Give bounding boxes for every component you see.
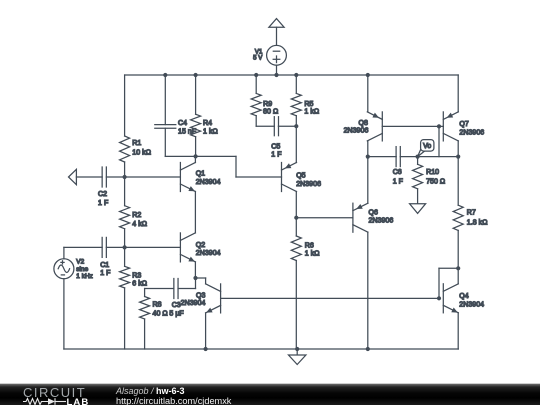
node Q7 base tie [437,124,441,128]
transistor Q2 [179,233,181,262]
svg-text:Q3: Q3 [196,293,205,300]
svg-text:Vo: Vo [423,143,431,150]
power arrow V1 [269,19,284,28]
wire rail to Q7 emitter [457,75,459,112]
resistor R10 [413,164,423,189]
wire Q2 emitter down [194,262,196,278]
wire C6 to Vo node [400,156,417,158]
svg-text:R5: R5 [304,101,313,108]
node Q7 collector [456,155,460,159]
transistor Q1 [179,163,181,192]
svg-text:Q7: Q7 [459,121,468,128]
svg-text:Q2: Q2 [196,242,205,249]
svg-text:1 kΩ: 1 kΩ [304,109,319,116]
node C1 junction [123,245,127,249]
wire Q8 collector down [367,141,369,157]
wire C1 to Q2 base [106,246,180,248]
svg-text:Q8: Q8 [359,120,368,127]
wire C5 to R5 node [278,125,296,127]
svg-text:V2: V2 [76,259,84,266]
resistor R8 [140,297,150,320]
transistor Q8 [381,112,383,141]
wire bottom rail [64,348,458,350]
node Q1 collector [194,154,198,158]
node R5 top [294,73,298,77]
svg-text:2N3906: 2N3906 [369,218,394,225]
node Q4 base [437,296,441,300]
wire V2 bottom [63,279,65,349]
node C4 top [163,73,167,77]
capacitor C1 [101,237,103,257]
wire Q3 emitter down [205,313,207,349]
capacitor C3 [173,279,175,299]
svg-text:C6: C6 [393,169,402,176]
svg-text:2N3904: 2N3904 [196,179,221,186]
svg-text:2N3906: 2N3906 [344,128,369,135]
wire base tie down [438,126,440,156]
svg-text:1 F: 1 F [393,178,403,185]
footer bar [0,383,540,405]
wire Q7 collector down [457,141,459,157]
svg-text:750 Ω: 750 Ω [426,178,445,185]
resistor R7 [453,205,463,230]
node Q8 rail [366,73,370,77]
node V1 rail [274,73,278,77]
resistor R2 [120,206,130,229]
node R9 top [254,73,258,77]
svg-text:Q6: Q6 [369,210,378,217]
wire V2 top to C1 [63,247,65,258]
svg-text:2N3904: 2N3904 [459,302,484,309]
wire Q4 emitter down [457,313,459,349]
resistor R1 [120,136,130,162]
svg-text:R1: R1 [132,140,141,147]
svg-text:R8: R8 [153,302,162,309]
wire R5 to Q5 emitter [295,126,297,162]
wire Q8 base to Q7 base [382,125,443,127]
svg-text:80 Ω: 80 Ω [263,109,278,116]
flag Vo [418,150,427,157]
CircuitLab logo [23,385,86,400]
svg-text:C4: C4 [178,120,187,127]
svg-text:R3: R3 [132,273,141,280]
svg-text:1 F: 1 F [98,200,108,207]
wire Q6 emitter up [367,157,369,204]
svg-text:2N3906: 2N3906 [459,129,484,136]
svg-text:C1: C1 [100,262,109,269]
wire Q4 collector tie [439,267,458,269]
capacitor C5 [273,117,275,136]
wire Q3 collector [196,277,206,279]
node Q2 emitter [193,276,197,280]
wire R8 top to C3 [145,288,174,290]
footer text [116,386,185,396]
node R7 bottom [456,266,460,270]
wire top supply rail [125,74,459,76]
transistor Q7 [442,112,444,141]
node R6 bottom rail [295,347,299,351]
svg-text:10 kΩ: 10 kΩ [132,149,151,156]
wire input to C2 [76,176,102,178]
node Q8 collector [366,155,370,159]
svg-text:2N3904: 2N3904 [196,250,221,257]
transistor Q5 [281,163,283,192]
svg-text:5 µF: 5 µF [169,310,183,317]
svg-text:C2: C2 [98,191,107,198]
svg-text:C3: C3 [172,302,181,309]
svg-text:1 kΩ: 1 kΩ [203,128,218,135]
svg-text:R7: R7 [467,210,476,217]
wire C4 bottom to node [165,155,195,157]
node Vo [416,155,420,159]
svg-text:R6: R6 [305,242,314,249]
resistor R6 [291,236,301,261]
wire Q3 base to Q4 base [221,297,439,299]
svg-text:2N3906: 2N3906 [296,181,321,188]
wire node to C6 [368,156,396,158]
svg-text:Q5: Q5 [296,172,305,179]
resistor R5 [291,93,301,115]
transistor Q6 [352,203,354,232]
svg-text:1 F: 1 F [100,270,110,277]
node input junction [123,175,127,179]
transistor Q3 [220,284,222,313]
svg-text:R9: R9 [263,101,272,108]
wire Q1 emitter to Q2 collector [194,192,196,233]
ground R10 [410,204,426,214]
node Q3 emitter rail [204,347,208,351]
wire Q5 collector to Q6 base [296,217,353,219]
node Q6 collector rail [366,347,370,351]
node Q5 collector [294,216,298,220]
resistor R4 [191,114,201,137]
svg-text:6 kΩ: 6 kΩ [132,280,147,287]
wire C2 to Q1 base [106,176,180,178]
resistor R3 [120,266,130,288]
node R5 bottom [294,124,298,128]
wire C3 to Q2 emitter node [178,288,195,290]
svg-text:R2: R2 [132,212,141,219]
source V2 sine [54,259,74,279]
wire Vo node to Q7 collector [418,156,459,158]
wire Q8 emitter to rail [367,75,369,112]
svg-text:15 nF: 15 nF [178,129,196,136]
transistor Q4 [442,284,444,313]
ground bottom [296,349,298,355]
svg-text:1 F: 1 F [271,151,281,158]
svg-text:C5: C5 [271,144,280,151]
svg-text:R4: R4 [203,120,212,127]
wire Q5 collector down [295,192,297,218]
node R4 top [194,73,198,77]
wire Q6 collector down [367,232,369,349]
svg-text:5 V: 5 V [253,54,263,61]
svg-text:4 kΩ: 4 kΩ [132,221,147,228]
svg-text:Q1: Q1 [196,170,205,177]
wire R9 to C5 [256,125,274,127]
capacitor C2 [101,167,103,187]
svg-text:1.8 kΩ: 1.8 kΩ [467,220,488,227]
svg-text:Q4: Q4 [459,293,468,300]
svg-text:40 Ω: 40 Ω [153,310,168,317]
svg-text:R10: R10 [426,169,439,176]
wire Q1 collector to Q5 base [196,155,236,157]
svg-text:1 kΩ: 1 kΩ [305,251,320,258]
input port arrow [69,169,77,184]
svg-text:sine: sine [76,266,88,273]
source V1 [267,45,287,65]
svg-text:1 kHz: 1 kHz [76,273,93,280]
capacitor C6 [395,147,397,167]
capacitor C4 [155,124,176,126]
resistor R9 [251,93,261,115]
svg-text:2N3904: 2N3904 [181,300,206,307]
